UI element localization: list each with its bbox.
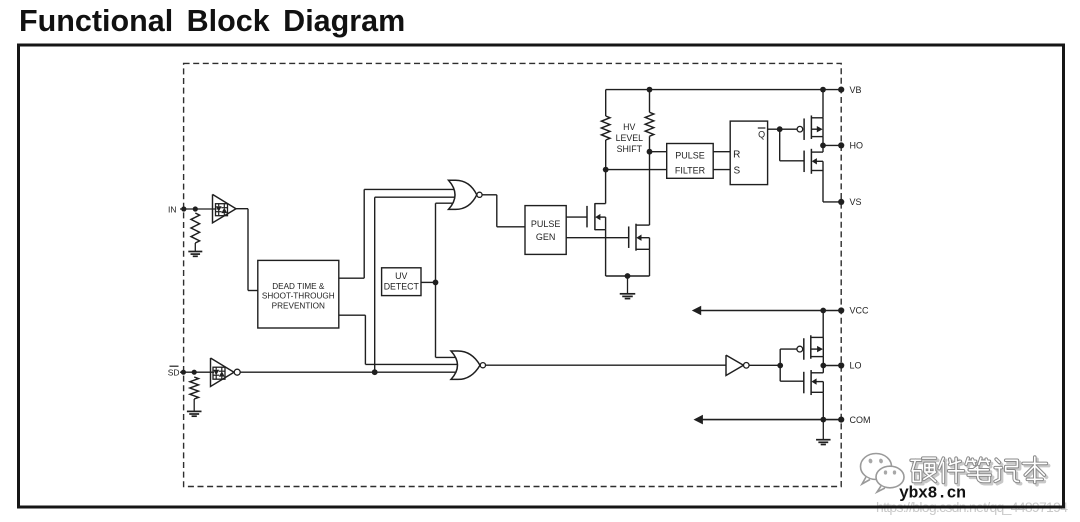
svg-text:ybx8.cn: ybx8.cn: [899, 484, 966, 503]
svg-text:FILTER: FILTER: [675, 166, 706, 176]
svg-text:VB: VB: [850, 85, 862, 95]
svg-text:SD: SD: [168, 368, 180, 378]
svg-text:PREVENTION: PREVENTION: [272, 301, 325, 310]
svg-text:LO: LO: [850, 361, 862, 371]
svg-text:HV: HV: [623, 122, 635, 132]
svg-text:SHIFT: SHIFT: [617, 144, 643, 154]
svg-text:GEN: GEN: [536, 232, 556, 242]
svg-text:IN: IN: [168, 204, 177, 214]
svg-text:VCC: VCC: [850, 306, 870, 316]
svg-text:DEAD TIME &: DEAD TIME &: [272, 282, 325, 291]
svg-text:R: R: [733, 150, 740, 161]
svg-text:LEVEL: LEVEL: [616, 133, 643, 143]
svg-text:S: S: [733, 166, 740, 177]
svg-text:VS: VS: [850, 197, 862, 207]
svg-text:Q: Q: [758, 130, 765, 140]
svg-text:COM: COM: [850, 415, 871, 425]
svg-text:PULSE: PULSE: [531, 219, 561, 229]
svg-text:SHOOT-THROUGH: SHOOT-THROUGH: [262, 292, 335, 301]
svg-text:PULSE: PULSE: [675, 151, 705, 161]
svg-text:HO: HO: [850, 141, 864, 151]
svg-text:UV: UV: [395, 271, 407, 281]
svg-text:DETECT: DETECT: [384, 282, 420, 292]
